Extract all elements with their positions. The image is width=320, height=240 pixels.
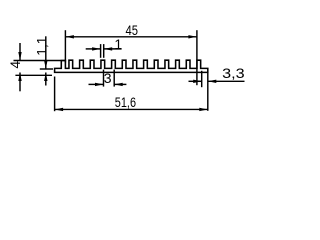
dimension 1,1: vertical dim line upper part bbox=[45, 36, 47, 69]
svg-text:45: 45 bbox=[126, 22, 139, 38]
arrowheads bbox=[65, 35, 74, 38]
dimension 1: arrow lines bbox=[86, 48, 101, 50]
heatsink extrusion profile outline (base slab + left lip + 13 fins) bbox=[55, 60, 208, 72]
dimension 3 (fin pitch): extension lines bbox=[103, 70, 105, 87]
dimension 1 (fin width): extension ticks bbox=[100, 44, 102, 58]
dimension 4: top extension line (merges into lip top) bbox=[14, 60, 66, 62]
svg-text:3: 3 bbox=[104, 70, 112, 86]
svg-text:4: 4 bbox=[7, 61, 23, 69]
svg-text:3,3: 3,3 bbox=[222, 65, 245, 81]
dimension 51,6: dim line bbox=[55, 108, 208, 110]
dimension 45: horizontal dim line bbox=[65, 36, 197, 38]
dimension 3,3 (right tab): left extension line bbox=[201, 71, 203, 87]
dimension 51,6: extension lines bbox=[54, 77, 56, 112]
dimension 4: vertical dim line lower part bbox=[19, 73, 21, 92]
svg-text:51,6: 51,6 bbox=[115, 94, 136, 110]
svg-text:1: 1 bbox=[114, 36, 122, 52]
dimension 45 right extension line (crosses profile) bbox=[196, 30, 198, 85]
dimension 1,1: vertical dim line lower part bbox=[45, 73, 47, 86]
svg-text:1,1: 1,1 bbox=[34, 36, 50, 55]
dimension 4: bottom extension line bbox=[15, 74, 52, 76]
dimension 3: arrow lines bbox=[89, 83, 104, 85]
dimension 45 left extension line bbox=[64, 30, 66, 62]
dimension 3,3: arrow lines bbox=[189, 80, 202, 82]
dimension 1,1: top extension line bbox=[40, 68, 53, 70]
dimension 4: vertical dim line upper part bbox=[19, 43, 21, 61]
